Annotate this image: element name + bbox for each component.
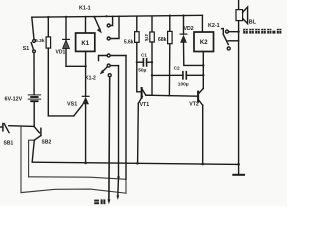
wire K1-2 upper throw down long: [125, 56, 127, 180]
arrow terminal right: [116, 196, 119, 200]
wire speaker feed vertical: [238, 0, 240, 10]
relay contact K1-2: [85, 54, 126, 82]
node dot R1 top: [47, 16, 49, 18]
relay coil K2: [194, 15, 214, 51]
node dot line A junction: [117, 176, 119, 178]
wire R3 down to base line: [146, 42, 152, 95]
wire lower return line B: [21, 189, 126, 193]
node dot VD2 anode junction: [202, 64, 204, 66]
wire K1-2 lower throw down: [118, 66, 120, 178]
node dot VD2 top: [182, 14, 184, 16]
relay contact K2-1: [222, 29, 239, 50]
resistor R1 5.3k: [35, 17, 50, 48]
svg-text:K2: K2: [200, 40, 208, 46]
node dot ground junction: [237, 163, 240, 166]
svg-text:VS1: VS1: [67, 102, 77, 108]
wire K1 to VS1: [85, 51, 87, 96]
wire top +V rail: [32, 15, 203, 17]
node dot VT2 emitter at ground rail: [201, 163, 204, 166]
svg-text:BL: BL: [249, 20, 257, 26]
wire bottom ground rail: [32, 162, 238, 164]
wire battery to pushbutton node: [33, 102, 35, 127]
node dot VS1 cathode at ground rail: [84, 162, 87, 165]
svg-text:SB1: SB1: [4, 140, 14, 146]
ground: [233, 164, 244, 174]
svg-text:S1: S1: [23, 46, 29, 52]
diode VD2: [180, 16, 203, 66]
svg-text:5.3k: 5.3k: [35, 38, 45, 44]
svg-text:K2-1: K2-1: [208, 23, 220, 29]
node dot VD1-K1 junction: [84, 65, 86, 67]
transistor VT2: [189, 88, 203, 163]
relay contact K1-1: [93, 15, 119, 40]
transistor VT1: [138, 88, 150, 163]
resistor R2 5.6k: [124, 16, 139, 45]
svg-text:100μ: 100μ: [178, 82, 189, 88]
node dot C2 right: [202, 74, 204, 76]
wire SB1 to battery node: [9, 125, 34, 128]
svg-text:47k: 47k: [144, 34, 149, 42]
svg-text:VT1: VT1: [140, 102, 150, 108]
svg-text:K1-1: K1-1: [79, 6, 91, 12]
arrow terminal left: [107, 199, 110, 204]
diode VD1: [56, 17, 70, 66]
svg-text:68k: 68k: [158, 37, 167, 43]
node dot C1 left: [136, 61, 138, 63]
wire K1-2 common down: [108, 77, 111, 200]
svg-text:K1-2: K1-2: [85, 76, 96, 82]
node dot VD1 top: [65, 16, 67, 18]
wire C2 feed line: [152, 74, 183, 76]
node dot C1 right: [151, 61, 153, 63]
svg-text:K1: K1: [81, 41, 89, 47]
pushbutton SB1: [1, 124, 14, 147]
svg-text:6V-12V: 6V-12V: [5, 96, 23, 102]
svg-text:C2: C2: [174, 66, 180, 72]
resistor R4 68k: [158, 16, 172, 44]
wire SB2 node down to ground rail: [32, 140, 34, 162]
svg-text:VD2: VD2: [184, 26, 194, 32]
node dot R4 top: [169, 15, 171, 17]
battery GB 6V~12V: [5, 95, 41, 103]
svg-text:SB2: SB2: [42, 139, 52, 145]
wire R2 to C1 and VT1 base: [137, 42, 141, 91]
svg-text:VT2: VT2: [189, 101, 199, 107]
capacitor C2 100u: [174, 66, 204, 88]
resistor R3 47k (vertical label): [144, 16, 154, 42]
wire K2 to VT2 collector: [202, 52, 204, 89]
switch S1: [23, 17, 36, 52]
wire R1 to VS1 gate: [48, 48, 74, 116]
wire R4 down to VT2 base line: [168, 44, 170, 96]
node dot R3 at C2 feed: [151, 74, 153, 76]
wire base coupling line VT1 collector to VT2 base: [146, 95, 197, 96]
svg-text:50μ: 50μ: [138, 68, 146, 74]
thyristor VS1: [67, 96, 89, 163]
svg-text:VD1: VD1: [56, 50, 66, 56]
wire S1 to battery: [33, 53, 35, 95]
label 去火线 (to ignition line): [94, 199, 105, 204]
node dot speaker line: [237, 31, 239, 33]
relay coil K1: [76, 17, 95, 52]
wire VD1 anode to K1 branch: [66, 65, 86, 67]
speaker BL: [236, 7, 257, 26]
label 摩托车喇叭声器 (motorcycle horn): [243, 29, 282, 34]
wire SB2 node branch left: [29, 140, 35, 177]
wire K1-2 lower throw arrow tail: [117, 177, 120, 196]
svg-text:C1: C1: [141, 52, 147, 57]
node dot VT1 emitter at ground rail: [136, 162, 139, 165]
wire SB1 branch down: [20, 127, 22, 193]
svg-text:5.6k: 5.6k: [124, 39, 134, 45]
pushbutton SB2: [34, 127, 51, 146]
wire middle return line A: [29, 177, 126, 180]
capacitor C1 50u: [137, 52, 152, 73]
wire corner joining line A and line B: [125, 179, 127, 193]
